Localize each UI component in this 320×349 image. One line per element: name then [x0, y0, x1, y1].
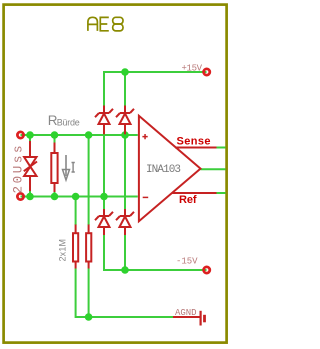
svg-text:Ref: Ref [179, 194, 197, 206]
svg-text:INA103: INA103 [146, 164, 181, 176]
svg-text:AGND: AGND [175, 308, 197, 318]
svg-text:2x1M: 2x1M [58, 239, 68, 262]
svg-text:Sense: Sense [177, 136, 211, 148]
svg-text:-15V: -15V [176, 256, 198, 266]
svg-text:Bürde: Bürde [57, 117, 80, 127]
svg-text:+15V: +15V [182, 63, 203, 73]
svg-text:20Uss: 20Uss [11, 146, 25, 194]
